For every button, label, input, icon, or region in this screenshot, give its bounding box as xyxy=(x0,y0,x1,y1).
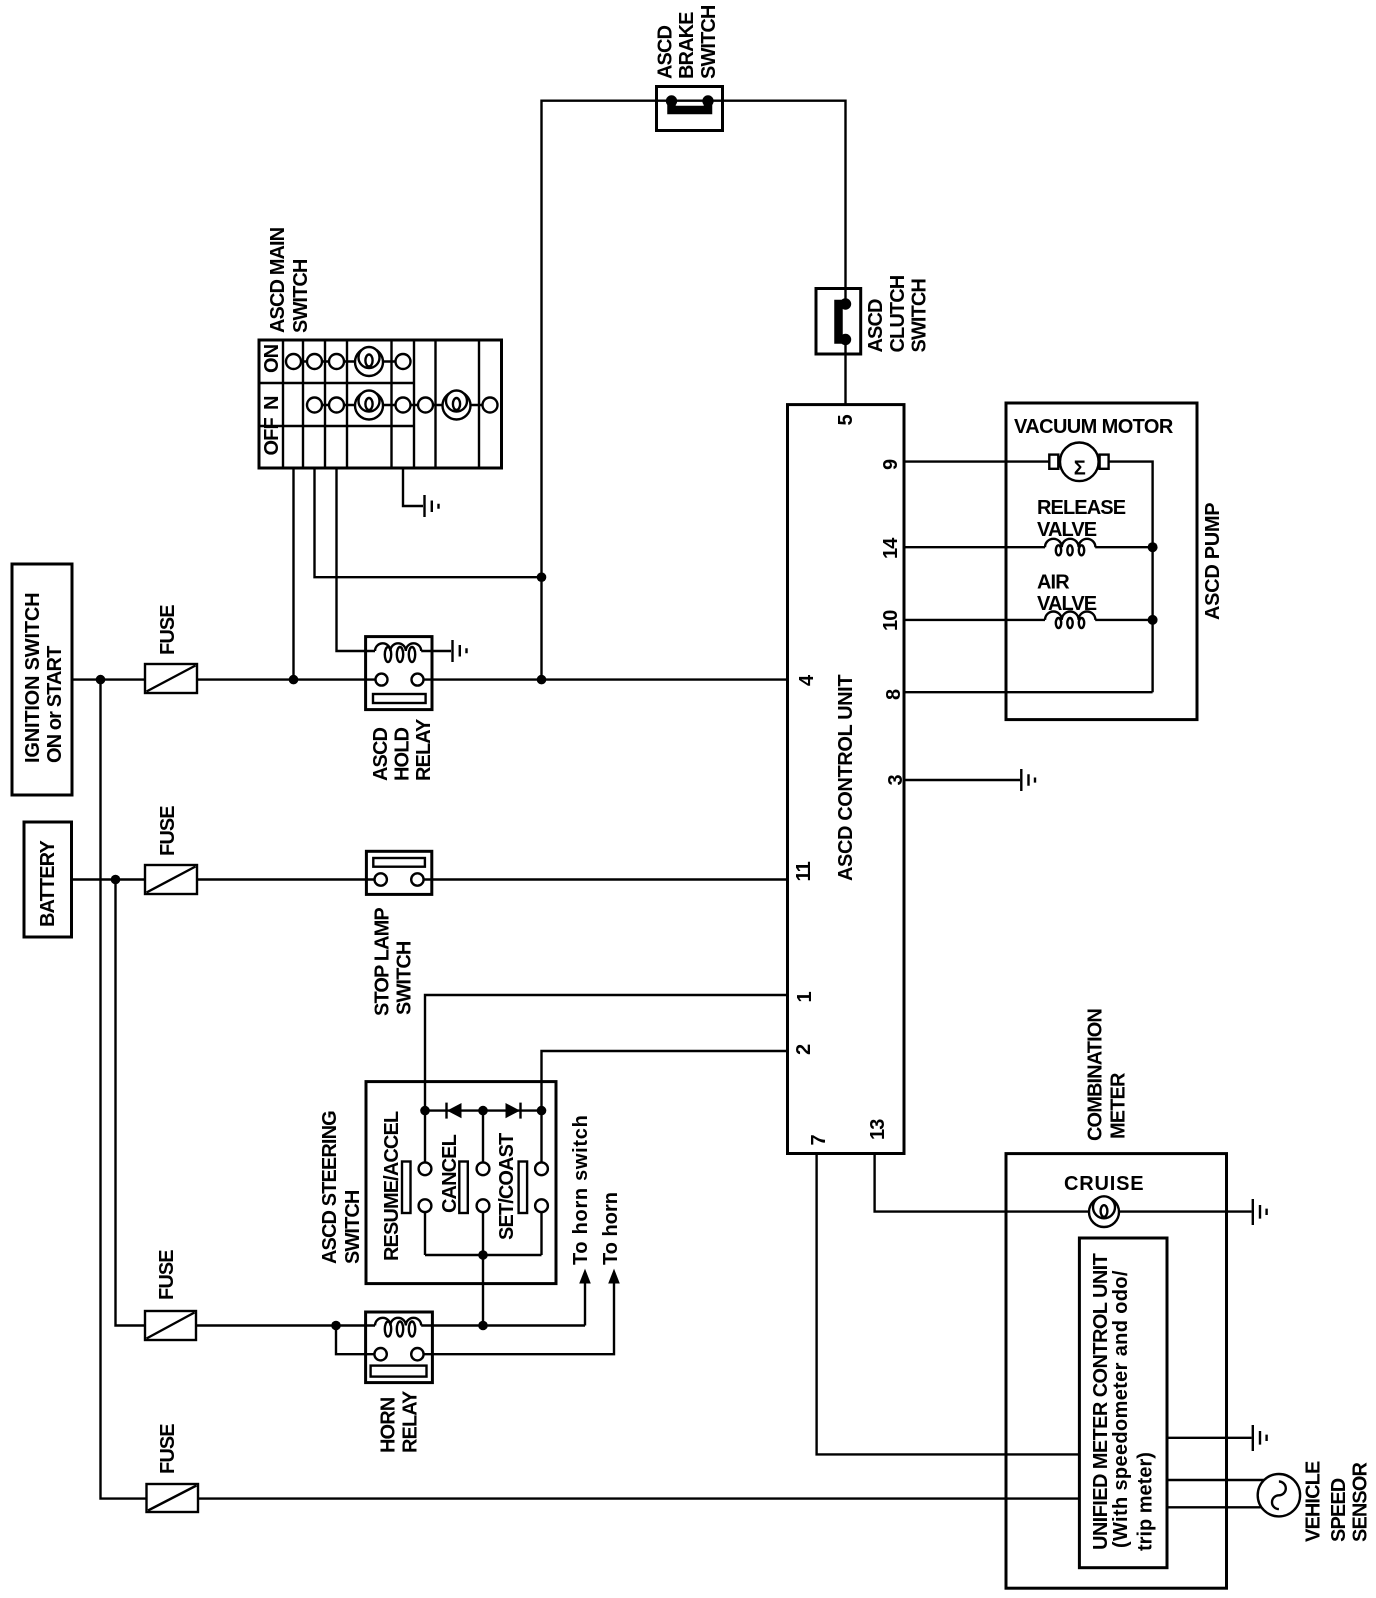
svg-text:FUSE: FUSE xyxy=(156,1250,178,1300)
svg-text:SWITCH: SWITCH xyxy=(394,941,416,1015)
wire: ignition branch down to fuse F4 xyxy=(101,680,147,1499)
wire: cruise indicator to ground xyxy=(1119,1210,1251,1212)
svg-text:1: 1 xyxy=(794,992,816,1003)
svg-text:SWITCH: SWITCH xyxy=(909,279,931,353)
wire: main switch N contact up to ASCD brake switch and down to clutch switch xyxy=(542,101,846,680)
junction: release valve return xyxy=(1148,542,1158,552)
wire: main switch lamp to ground xyxy=(403,468,423,506)
junction: set/coast column on bus xyxy=(537,1106,547,1116)
svg-text:METER: METER xyxy=(1108,1072,1130,1139)
wire: control unit pin 1 to steering switch resume column xyxy=(425,995,788,1162)
wire and arrow: To horn switch xyxy=(579,1269,591,1326)
wire: main switch to brake switch feed xyxy=(315,468,542,577)
svg-text:UNIFIED METER CONTROL UNIT: UNIFIED METER CONTROL UNIT xyxy=(1090,1253,1112,1550)
svg-text:RESUME/ACCEL: RESUME/ACCEL xyxy=(381,1111,403,1261)
diode D1 xyxy=(447,1103,462,1119)
ground: cruise indicator xyxy=(1253,1199,1267,1225)
junction: bottom bus xyxy=(478,1250,488,1260)
diode D2 xyxy=(506,1103,521,1119)
ground: unified meter xyxy=(1253,1425,1267,1451)
svg-text:CANCEL: CANCEL xyxy=(439,1134,461,1213)
wire: fuse F4 to unified meter control unit xyxy=(198,1497,1079,1499)
wire: pin 3 to ground xyxy=(904,779,1020,781)
SET/COAST switch xyxy=(496,1111,548,1255)
svg-text:SWITCH: SWITCH xyxy=(342,1190,364,1264)
ignition switch box xyxy=(12,564,72,795)
svg-text:5: 5 xyxy=(835,415,857,426)
label: AIR VALVE xyxy=(1037,572,1097,616)
RESUME/ACCEL switch xyxy=(381,1111,431,1261)
air valve coil xyxy=(1045,612,1095,629)
wire: horn relay contact feed xyxy=(336,1326,374,1355)
svg-text:CLUTCH: CLUTCH xyxy=(887,275,909,352)
wire: clutch switch to control unit pin 5 xyxy=(844,340,846,405)
stop lamp switch xyxy=(366,851,431,894)
wire: ignition switch through fuse to hold relay and pin 4 xyxy=(72,678,788,680)
unified meter control unit xyxy=(1079,1238,1167,1568)
svg-text:CRUISE: CRUISE xyxy=(1064,1173,1144,1195)
fuse F4 xyxy=(147,1484,199,1512)
release valve coil xyxy=(1045,539,1095,556)
wire: battery through fuse and stop lamp switch to pin 11 xyxy=(72,878,788,880)
junction: main switch ON feed xyxy=(289,675,299,685)
cruise indicator lamp xyxy=(1089,1196,1119,1227)
battery box xyxy=(24,822,72,937)
svg-text:ASCD: ASCD xyxy=(370,727,392,781)
wire: main switch to hold relay coil xyxy=(337,468,376,651)
svg-text:7: 7 xyxy=(808,1135,830,1146)
ASCD steering switch box xyxy=(366,1082,556,1284)
svg-text:RELAY: RELAY xyxy=(400,1390,422,1453)
svg-text:IGNITION SWITCH: IGNITION SWITCH xyxy=(22,593,44,763)
svg-text:OFF: OFF xyxy=(261,418,283,456)
svg-text:HOLD: HOLD xyxy=(392,727,414,781)
horn relay xyxy=(366,1312,433,1383)
wire: air valve to return bus xyxy=(1095,619,1152,621)
svg-text:SWITCH: SWITCH xyxy=(698,5,720,79)
junction: steering switch ground branch xyxy=(478,1321,488,1331)
svg-text:ON or START: ON or START xyxy=(44,646,66,763)
wire: unified meter to vehicle speed sensor xyxy=(1167,1480,1265,1507)
vehicle speed sensor xyxy=(1258,1474,1300,1516)
wire: pin 7 to unified meter control unit xyxy=(817,1154,1080,1455)
ASCD main switch xyxy=(259,340,502,468)
svg-text:BRAKE: BRAKE xyxy=(676,12,698,79)
fuse F3 xyxy=(145,1311,196,1340)
svg-text:SET/COAST: SET/COAST xyxy=(496,1133,518,1240)
svg-text:Σ: Σ xyxy=(1074,458,1086,480)
label: HORN RELAY xyxy=(378,1390,422,1453)
svg-text:COMBINATION: COMBINATION xyxy=(1085,1009,1107,1141)
wire: steering switch to horn relay line xyxy=(482,1255,484,1326)
svg-text:HORN: HORN xyxy=(378,1397,400,1453)
wire: pin 10 to air valve xyxy=(904,619,1045,621)
junction: resume column on bus xyxy=(420,1106,430,1116)
fuse F1 xyxy=(145,664,197,693)
svg-text:ASCD STEERING: ASCD STEERING xyxy=(319,1111,341,1264)
junction: horn relay feed xyxy=(331,1321,341,1331)
wire: battery branch down to fuse F3 xyxy=(116,880,146,1326)
wire: horn relay coil to horn switch xyxy=(421,1324,585,1326)
wire and arrow: horn relay contact To horn xyxy=(424,1269,620,1355)
wire: hold relay coil to ground xyxy=(421,650,451,652)
svg-text:ASCD: ASCD xyxy=(655,25,677,79)
svg-text:3: 3 xyxy=(885,775,907,786)
wire: steering switch bottom bus xyxy=(425,1254,542,1256)
svg-text:trip meter): trip meter) xyxy=(1135,1452,1157,1551)
svg-text:2: 2 xyxy=(793,1044,815,1055)
ASCD control unit xyxy=(788,405,905,1154)
ASCD clutch switch xyxy=(816,289,861,355)
svg-text:8: 8 xyxy=(883,689,905,700)
svg-text:SENSOR: SENSOR xyxy=(1350,1461,1372,1542)
label: COMBINATION METER xyxy=(1085,1009,1130,1141)
wire: pin 14 to release valve xyxy=(904,546,1045,548)
CANCEL switch xyxy=(439,1111,489,1255)
wire: diode bus xyxy=(425,1109,542,1111)
svg-text:13: 13 xyxy=(867,1119,889,1140)
label: ASCD HOLD RELAY xyxy=(370,718,435,781)
wire: pin 13 to cruise indicator xyxy=(875,1154,1089,1212)
label: ASCD MAIN SWITCH xyxy=(267,227,312,333)
svg-text:SWITCH: SWITCH xyxy=(290,259,312,333)
svg-text:VACUUM MOTOR: VACUUM MOTOR xyxy=(1014,416,1174,438)
svg-text:SPEED: SPEED xyxy=(1328,1478,1350,1542)
wire: pin 8 to return bus xyxy=(904,691,1153,693)
wire: control unit pin 2 to steering switch diode bus xyxy=(542,1051,788,1111)
svg-text:N: N xyxy=(261,396,283,410)
svg-text:BATTERY: BATTERY xyxy=(37,840,59,927)
ASCD pump box xyxy=(1006,403,1197,720)
svg-text:ASCD CONTROL UNIT: ASCD CONTROL UNIT xyxy=(835,675,857,881)
junction: ignition branch xyxy=(96,675,106,685)
ground: hold relay xyxy=(453,640,467,662)
label: VEHICLE SPEED SENSOR xyxy=(1303,1461,1372,1542)
svg-text:RELAY: RELAY xyxy=(413,718,435,781)
wire: unified meter to ground xyxy=(1167,1437,1252,1439)
svg-text:FUSE: FUSE xyxy=(157,806,179,856)
svg-text:11: 11 xyxy=(793,861,815,881)
svg-text:RELEASE: RELEASE xyxy=(1037,497,1126,519)
label: ASCD BRAKE SWITCH xyxy=(655,5,721,79)
junction: main switch to brake line xyxy=(537,572,547,582)
ASCD brake switch xyxy=(657,87,723,131)
junction: cancel column on bus xyxy=(478,1106,488,1116)
label: STOP LAMP SWITCH xyxy=(372,908,416,1016)
fuse F2 xyxy=(145,865,197,894)
svg-text:VEHICLE: VEHICLE xyxy=(1303,1461,1325,1542)
svg-text:14: 14 xyxy=(880,537,902,559)
ground: control unit pin 3 xyxy=(1021,769,1035,791)
combination meter box xyxy=(1006,1154,1227,1589)
svg-text:ASCD: ASCD xyxy=(865,299,887,353)
label: ASCD STEERING SWITCH xyxy=(319,1111,364,1264)
wire: release valve to return bus xyxy=(1095,546,1152,548)
ground: main switch xyxy=(425,495,439,517)
svg-text:ON: ON xyxy=(261,344,283,373)
wire: main switch to ignition feed line xyxy=(292,468,294,680)
svg-text:AIR: AIR xyxy=(1037,572,1070,594)
label: RELEASE VALVE xyxy=(1037,497,1126,541)
junction: air valve return xyxy=(1148,615,1158,625)
svg-text:To horn: To horn xyxy=(600,1192,622,1265)
svg-text:(With speedometer and odo/: (With speedometer and odo/ xyxy=(1110,1270,1132,1548)
svg-text:ASCD PUMP: ASCD PUMP xyxy=(1202,503,1224,620)
svg-text:FUSE: FUSE xyxy=(157,605,179,655)
svg-text:To horn switch: To horn switch xyxy=(570,1114,592,1265)
svg-text:FUSE: FUSE xyxy=(157,1424,179,1474)
svg-text:9: 9 xyxy=(880,459,902,470)
wire: pin 9 to vacuum motor xyxy=(904,460,1049,462)
svg-text:ASCD MAIN: ASCD MAIN xyxy=(267,227,289,333)
label: ASCD CLUTCH SWITCH xyxy=(865,275,931,352)
ASCD hold relay xyxy=(366,637,432,710)
svg-text:10: 10 xyxy=(880,610,902,631)
junction: brake switch line at pin4 wire xyxy=(537,675,547,685)
svg-text:4: 4 xyxy=(796,674,818,686)
vacuum motor xyxy=(1049,443,1108,482)
wire: motor to valve return bus xyxy=(1109,462,1153,693)
junction: battery branch xyxy=(111,875,121,885)
svg-text:STOP LAMP: STOP LAMP xyxy=(372,908,394,1016)
wire: fuse F3 to horn relay coil xyxy=(196,1324,375,1326)
